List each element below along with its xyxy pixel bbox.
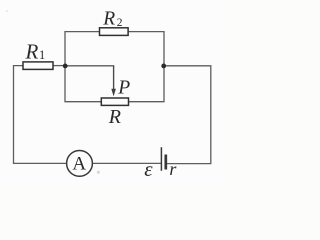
svg-text:ε: ε	[144, 157, 153, 181]
svg-text:1: 1	[39, 48, 45, 62]
node B (junction dot)	[161, 64, 166, 69]
svg-text:R: R	[25, 39, 39, 63]
speck (scan artifact) near ammeter	[97, 171, 100, 174]
wire: R1 right lead to node A	[53, 65, 65, 67]
wire: middle run from node A to slider stem turn	[65, 65, 114, 67]
wire: ammeter right lead to battery positive plate	[93, 162, 161, 164]
svg-text:A: A	[72, 154, 86, 175]
wire: node B right, outer right vertical, bottom-right run to battery	[164, 66, 211, 164]
resistor R2	[100, 9, 129, 36]
resistor R1	[23, 39, 53, 69]
wire: R1 left lead, left vertical side, bottom-left run to ammeter	[14, 66, 67, 164]
potentiometer slider P (arrow)	[111, 66, 130, 99]
svg-text:P: P	[117, 78, 130, 99]
ammeter A	[67, 151, 93, 177]
svg-text:R: R	[102, 9, 115, 30]
wire: node A down to pot left lead	[65, 66, 101, 102]
node A (junction dot)	[63, 64, 68, 69]
svg-text:R: R	[108, 106, 121, 128]
wire: R2 right lead, right inner vertical down to pot right lead	[128, 32, 164, 102]
speck (scan artifact) top-left	[6, 10, 8, 12]
wire: node A up and top run to R2 left lead	[65, 32, 100, 66]
potentiometer R (track box)	[101, 98, 128, 128]
svg-text:2: 2	[117, 17, 123, 29]
battery cell: emf ε with internal resistance r	[144, 147, 177, 181]
svg-text:r: r	[169, 159, 177, 179]
